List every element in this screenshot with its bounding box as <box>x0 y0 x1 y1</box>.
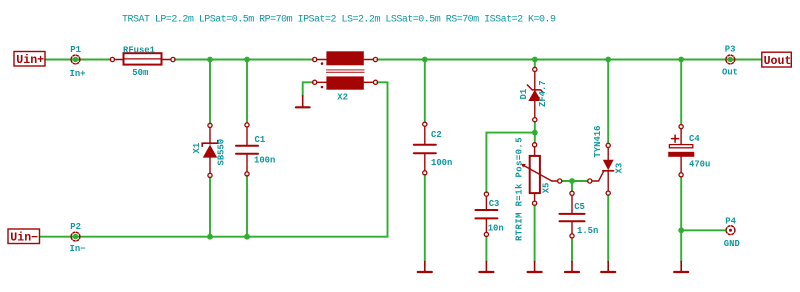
pin P4 GND <box>724 217 740 249</box>
svg-text:C1: C1 <box>255 135 266 145</box>
svg-text:Uout: Uout <box>764 55 792 68</box>
wire trimmer bottom to ground <box>534 205 536 261</box>
svg-text:TRSAT LP=2.2m LPSat=0.5m RP=70: TRSAT LP=2.2m LPSat=0.5m RP=70m IPSat=2 … <box>122 15 556 26</box>
svg-text:ZF4.7: ZF4.7 <box>538 80 548 107</box>
svg-text:C2: C2 <box>431 130 442 140</box>
wire top rail segment fuse to transformer <box>175 59 313 61</box>
svg-text:X5: X5 <box>542 183 552 194</box>
svg-text:RFuse1: RFuse1 <box>123 46 155 56</box>
capacitor C2 100n <box>414 122 453 175</box>
ground C4 <box>674 262 688 273</box>
ground C5 <box>565 262 579 273</box>
svg-text:SB550: SB550 <box>217 139 227 166</box>
svg-text:10n: 10n <box>488 224 504 234</box>
pin P2 In- <box>70 222 86 254</box>
wire node to C3 <box>486 133 534 193</box>
svg-text:TYN416: TYN416 <box>593 126 603 158</box>
ground trimmer <box>528 262 542 273</box>
trimmer RTRIM X5 <box>515 137 562 241</box>
svg-text:100n: 100n <box>254 155 275 165</box>
wire C1 column <box>246 60 248 237</box>
fuse RFuse1 50m <box>110 46 175 78</box>
net label box Uout <box>762 52 792 68</box>
capacitor C4 470u electrolytic <box>668 125 710 177</box>
capacitor C3 10n <box>475 192 503 236</box>
diode X1 SB550 schottky <box>192 123 227 177</box>
transformer X2 <box>313 51 378 102</box>
ground C2 <box>418 262 432 273</box>
wire C5 top stub <box>571 181 573 191</box>
wire C4 column <box>680 60 682 262</box>
wire C4 node to P4 <box>681 229 726 231</box>
svg-text:470u: 470u <box>689 159 710 169</box>
wire C2 column <box>424 60 426 262</box>
svg-text:GND: GND <box>724 239 740 249</box>
svg-text:P4: P4 <box>725 217 736 227</box>
svg-text:100n: 100n <box>431 158 452 168</box>
svg-text:P2: P2 <box>70 222 81 232</box>
wire X3 column <box>607 60 609 262</box>
wire top rail segment transformer to Uout <box>377 59 761 61</box>
ground transformer secondary <box>296 96 310 108</box>
pin P1 In+ <box>70 45 86 79</box>
svg-text:1.5n: 1.5n <box>577 226 598 236</box>
wire bottom rail Uin- to transformer return <box>40 82 388 236</box>
svg-text:P3: P3 <box>725 45 736 55</box>
svg-text:RTRIM R=1k Pos=0.5: RTRIM R=1k Pos=0.5 <box>515 137 525 241</box>
svg-text:Uin+: Uin+ <box>16 54 44 67</box>
capacitor C5 1.5n <box>560 191 599 238</box>
ground C3 <box>479 262 493 273</box>
ground X3 <box>601 262 615 273</box>
net label box Uin+ <box>14 52 45 68</box>
svg-text:C3: C3 <box>489 199 500 209</box>
wire wiper to gate node <box>562 180 588 182</box>
svg-text:X1: X1 <box>192 143 202 154</box>
capacitor C1 100n <box>236 123 275 176</box>
svg-text:Out: Out <box>722 68 738 78</box>
net label box Uin- <box>8 229 40 245</box>
svg-text:In+: In+ <box>70 69 86 79</box>
svg-text:50m: 50m <box>132 68 148 78</box>
svg-text:D1: D1 <box>519 89 529 100</box>
svg-text:C4: C4 <box>689 134 700 144</box>
svg-text:C5: C5 <box>574 202 585 212</box>
wire D1 column <box>534 60 536 143</box>
diode D1 ZF4.7 zener <box>519 67 548 121</box>
svg-text:P1: P1 <box>70 45 81 55</box>
svg-text:X2: X2 <box>337 92 348 102</box>
svg-text:Uin−: Uin− <box>10 232 38 245</box>
wire X1 column <box>209 60 211 237</box>
wire transformer secondary left to ground <box>303 82 313 96</box>
wire top rail segment Uin+ to fuse <box>45 59 111 61</box>
pin P3 Out <box>722 45 738 78</box>
svg-text:X3: X3 <box>615 163 625 174</box>
wire C3 bottom to ground <box>485 237 487 262</box>
thyristor X3 TYN416 <box>588 126 625 196</box>
svg-text:In−: In− <box>70 244 86 254</box>
wire C5 bottom to ground <box>571 238 573 262</box>
